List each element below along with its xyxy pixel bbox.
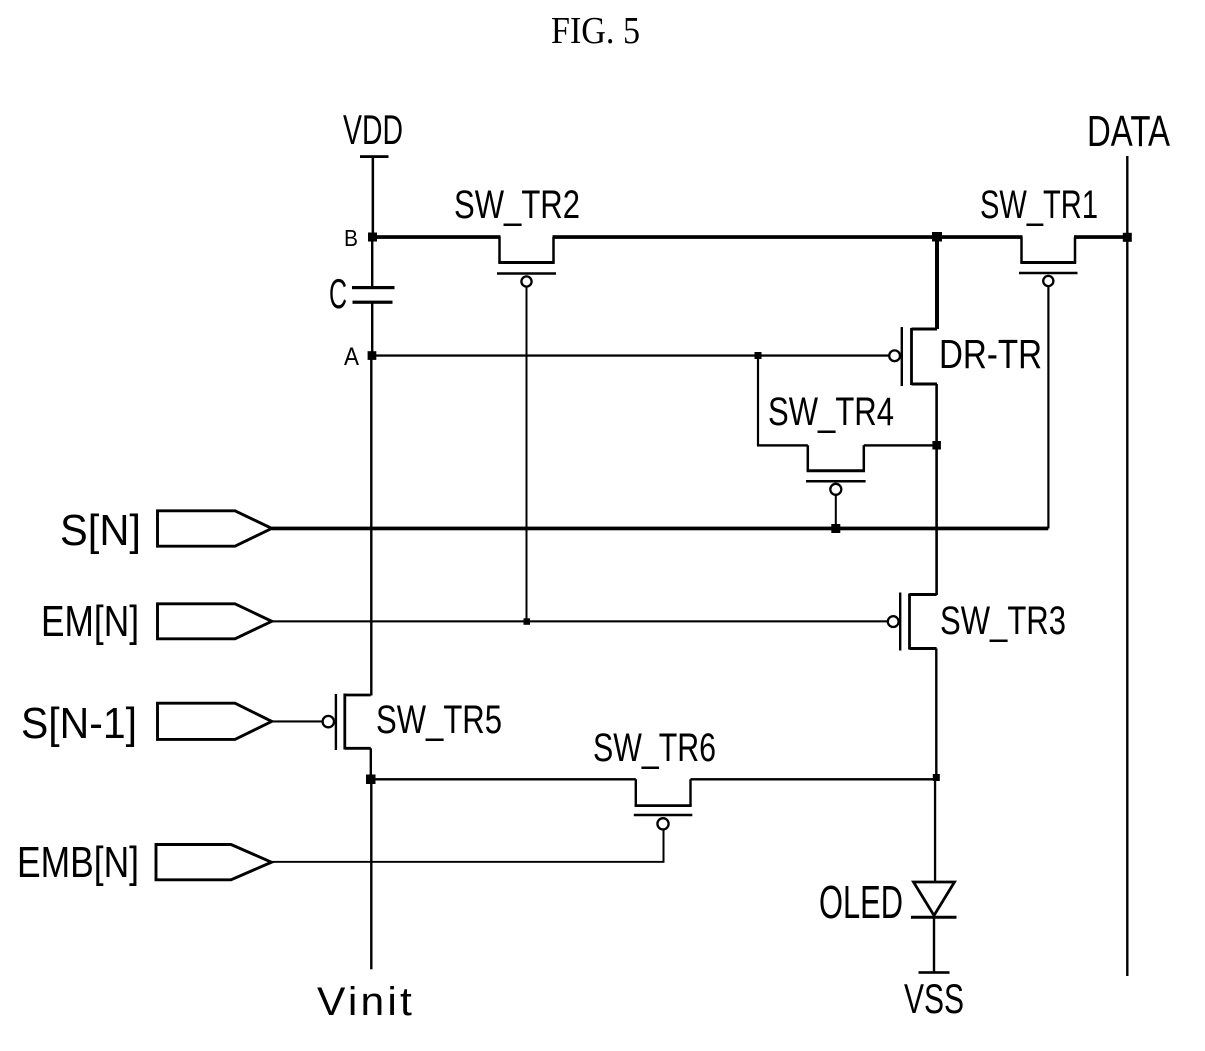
wire row6 right segment bbox=[691, 778, 937, 780]
S[N] input tag bbox=[158, 511, 272, 546]
svg-text:C: C bbox=[329, 270, 347, 317]
svg-text:SW_TR5: SW_TR5 bbox=[376, 698, 502, 742]
wire Vinit column upper (node A to SW_TR5 drain) bbox=[370, 356, 372, 696]
VDD terminal bar bbox=[360, 155, 389, 158]
wire top B-wire left segment bbox=[372, 235, 501, 239]
EM[N] input tag bbox=[158, 604, 272, 639]
wire VDD to node B bbox=[372, 156, 375, 237]
wire SW_TR4 left lead bbox=[757, 444, 808, 446]
node SW_TR2 gate on EM[N] bbox=[524, 618, 531, 625]
wire SW_TR1 gate to S[N] bbox=[1047, 287, 1049, 529]
wire SW_TR4 gate to S[N] bbox=[835, 495, 837, 529]
node A bbox=[368, 351, 377, 360]
wire top B-wire right segment bbox=[1074, 235, 1128, 239]
node SW_TR5 source junction bbox=[366, 775, 376, 785]
node SW_TR4 left on A-column bbox=[755, 352, 762, 359]
wire EMB[N] row bbox=[272, 861, 665, 863]
diode OLED bbox=[911, 882, 957, 972]
svg-text:DATA: DATA bbox=[1087, 107, 1170, 156]
svg-text:SW_TR4: SW_TR4 bbox=[768, 390, 894, 434]
node top wire / DATA junction bbox=[1123, 233, 1132, 242]
wire S[N-1] to SW_TR5 gate bbox=[272, 720, 323, 722]
transistor SW_TR2 body bbox=[497, 237, 556, 287]
wire top to DR-TR drain bbox=[935, 235, 939, 329]
wire Vinit column lower bbox=[370, 779, 372, 969]
transistor SW_TR4 body bbox=[806, 445, 866, 495]
transistor SW_TR6 body bbox=[634, 779, 693, 829]
transistor DR-TR body bbox=[889, 327, 937, 386]
wire B to capacitor bbox=[371, 238, 373, 288]
svg-text:OLED: OLED bbox=[819, 876, 903, 928]
wire EM[N] row bbox=[272, 620, 888, 622]
wire SW_TR3 node down to OLED bbox=[934, 778, 936, 883]
svg-text:B: B bbox=[344, 225, 358, 251]
wire SW_TR3 source down bbox=[935, 649, 937, 778]
capacitor C plates bbox=[352, 286, 395, 289]
S[N-1] input tag bbox=[158, 703, 272, 739]
wire SW_TR4 right lead bbox=[864, 444, 937, 446]
EMB[N] input tag bbox=[156, 845, 272, 880]
wire top B-wire middle segment bbox=[553, 235, 1023, 239]
svg-text:EMB[N]: EMB[N] bbox=[17, 838, 139, 887]
svg-text:VDD: VDD bbox=[343, 106, 403, 153]
wire node A down to SW_TR4 bbox=[757, 356, 759, 446]
svg-text:Vinit: Vinit bbox=[317, 980, 415, 1024]
node SW_TR4 gate on S[N] bbox=[831, 524, 840, 533]
svg-text:SW_TR2: SW_TR2 bbox=[454, 183, 580, 227]
svg-text:SW_TR1: SW_TR1 bbox=[980, 183, 1098, 227]
svg-text:FIG. 5: FIG. 5 bbox=[551, 10, 640, 52]
svg-text:S[N]: S[N] bbox=[60, 506, 141, 555]
transistor SW_TR1 body bbox=[1019, 237, 1078, 286]
svg-text:DR-TR: DR-TR bbox=[939, 331, 1042, 377]
wire DR-TR source down to SW_TR3 drain bbox=[935, 384, 938, 595]
wire row6 left segment bbox=[371, 778, 636, 780]
wire S[N] row bbox=[272, 527, 1049, 531]
svg-text:SW_TR3: SW_TR3 bbox=[940, 599, 1066, 643]
wire node A row bbox=[372, 354, 889, 356]
svg-text:EM[N]: EM[N] bbox=[41, 597, 139, 646]
node B bbox=[368, 233, 377, 242]
VSS terminal bar bbox=[919, 971, 950, 974]
svg-text:S[N-1]: S[N-1] bbox=[21, 699, 137, 748]
svg-text:SW_TR6: SW_TR6 bbox=[593, 726, 716, 770]
svg-text:A: A bbox=[344, 343, 359, 371]
svg-text:VSS: VSS bbox=[904, 975, 964, 1022]
wire capacitor to node A bbox=[371, 303, 373, 357]
node SW_TR4 right junction bbox=[932, 441, 941, 450]
node row6 / SW_TR3 source junction bbox=[933, 774, 940, 781]
wire DATA line bbox=[1126, 156, 1128, 976]
wire SW_TR5 source to row node bbox=[370, 748, 372, 779]
wire SW_TR6 gate to EMB[N] bbox=[663, 830, 665, 863]
node DR-TR drain junction bbox=[932, 232, 942, 242]
wire SW_TR2 gate to EM[N] bbox=[526, 287, 528, 622]
transistor SW_TR3 body bbox=[888, 593, 937, 651]
transistor SW_TR5 body bbox=[323, 694, 371, 751]
